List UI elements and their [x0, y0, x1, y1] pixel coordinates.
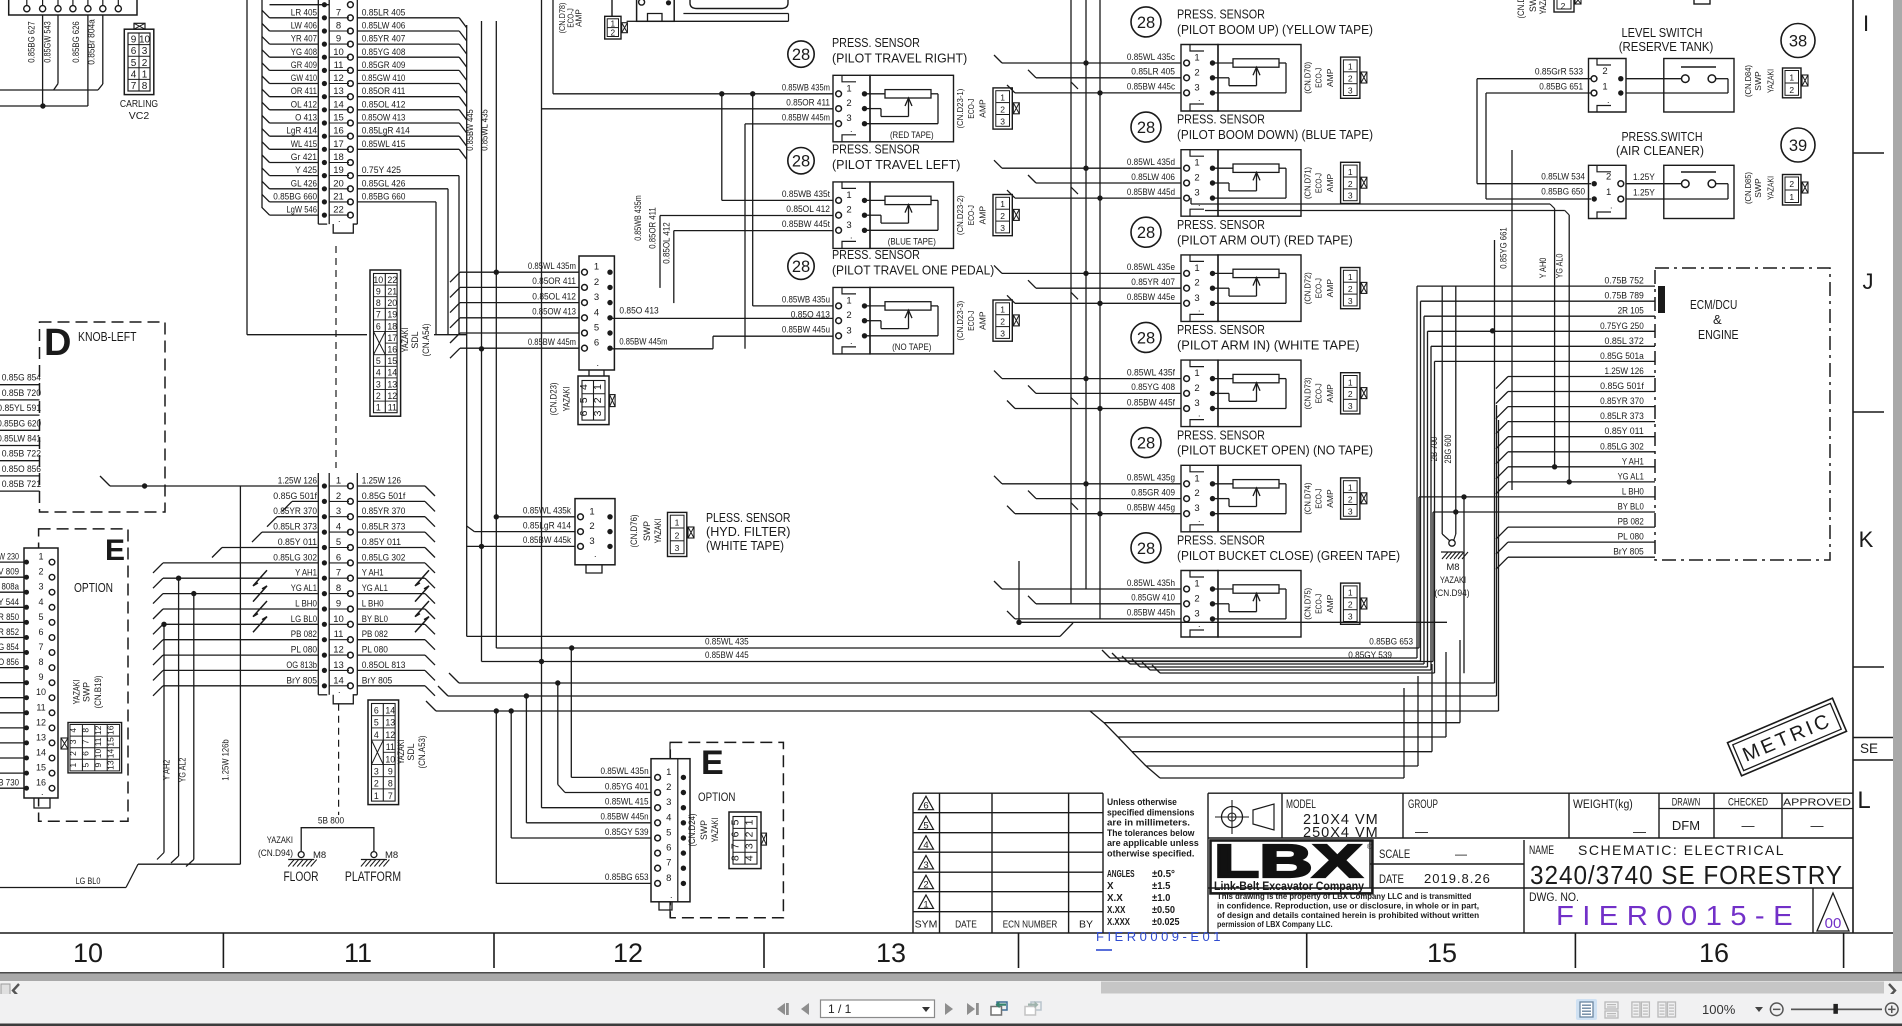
svg-text:BY BL0: BY BL0 — [1618, 502, 1644, 512]
svg-text:0.85GW 410: 0.85GW 410 — [362, 73, 406, 83]
svg-text:1.25W 126b: 1.25W 126b — [221, 739, 231, 780]
svg-text:2: 2 — [666, 782, 671, 793]
svg-text:3: 3 — [1194, 293, 1199, 304]
svg-text:SWP: SWP — [1753, 178, 1763, 198]
svg-text:2R 105: 2R 105 — [1618, 306, 1644, 316]
svg-text:&: & — [1713, 312, 1722, 327]
svg-text:2: 2 — [610, 28, 615, 38]
svg-text:SCHEMATIC: ELECTRICAL: SCHEMATIC: ELECTRICAL — [1578, 842, 1785, 858]
svg-text:28: 28 — [1137, 435, 1155, 453]
svg-text:LgR 414: LgR 414 — [286, 126, 317, 136]
svg-text:±0.025: ±0.025 — [1152, 917, 1180, 928]
svg-text:0.75Y 425: 0.75Y 425 — [362, 165, 401, 175]
svg-text:9: 9 — [336, 34, 341, 45]
svg-text:1: 1 — [336, 476, 341, 487]
svg-text:0.85BW 445k: 0.85BW 445k — [523, 535, 571, 545]
svg-text:2: 2 — [1000, 211, 1005, 221]
svg-text:2: 2 — [1606, 172, 1611, 183]
svg-text:0.85BG 653: 0.85BG 653 — [605, 872, 649, 882]
svg-text:1: 1 — [1348, 483, 1353, 493]
svg-text:1: 1 — [589, 506, 594, 517]
svg-text:(PILOT BOOM UP) (YELLOW TAPE): (PILOT BOOM UP) (YELLOW TAPE) — [1177, 22, 1373, 37]
svg-text:YAZAKI: YAZAKI — [400, 328, 410, 353]
svg-text:2: 2 — [1348, 600, 1353, 610]
svg-text:3: 3 — [1194, 398, 1199, 409]
svg-text:ECN NUMBER: ECN NUMBER — [1003, 919, 1058, 931]
svg-text:11: 11 — [36, 702, 45, 712]
svg-text:AMP: AMP — [1325, 594, 1335, 613]
svg-text:7: 7 — [38, 642, 43, 652]
svg-text:0.85LR 405: 0.85LR 405 — [1131, 67, 1175, 77]
svg-text:G 854: G 854 — [0, 642, 19, 652]
svg-text:0.85WL 435k: 0.85WL 435k — [523, 506, 571, 516]
svg-text:(RESERVE TANK): (RESERVE TANK) — [1619, 39, 1714, 54]
svg-text:3: 3 — [68, 739, 78, 744]
svg-text:(CN.D72): (CN.D72) — [1302, 272, 1312, 304]
svg-text:4: 4 — [374, 730, 379, 740]
svg-text:16: 16 — [333, 126, 344, 137]
svg-text:(CN.A53): (CN.A53) — [417, 735, 427, 768]
svg-text:1.25W 126: 1.25W 126 — [1605, 366, 1644, 376]
svg-text:PRESS. SENSOR: PRESS. SENSOR — [1177, 7, 1265, 22]
svg-text:(CN.D23): (CN.D23) — [548, 382, 558, 415]
svg-text:K: K — [1859, 527, 1874, 552]
svg-text:YAZAKI: YAZAKI — [1766, 176, 1776, 200]
svg-text:X.X: X.X — [1107, 893, 1123, 904]
svg-text:1: 1 — [1606, 187, 1611, 198]
svg-text:0.85OR 411: 0.85OR 411 — [648, 207, 658, 248]
svg-text:ECO-J: ECO-J — [1313, 68, 1323, 88]
svg-text:0.85GW 410: 0.85GW 410 — [1131, 593, 1175, 603]
svg-text:0.85BW 445d: 0.85BW 445d — [1127, 187, 1175, 197]
svg-text:LG BL0: LG BL0 — [76, 876, 101, 886]
svg-text:AMP: AMP — [978, 311, 988, 330]
svg-text:1 / 1: 1 / 1 — [828, 1002, 852, 1016]
svg-text:(PILOT TRAVEL RIGHT): (PILOT TRAVEL RIGHT) — [832, 50, 967, 65]
svg-text:8: 8 — [336, 21, 341, 32]
svg-text:5: 5 — [923, 821, 928, 832]
svg-text:10: 10 — [385, 754, 395, 764]
svg-text:CARLING: CARLING — [120, 98, 158, 110]
svg-text:0.85WB 435u: 0.85WB 435u — [782, 295, 830, 305]
svg-text:3240/3740 SE FORESTRY: 3240/3740 SE FORESTRY — [1530, 860, 1843, 890]
svg-text:6: 6 — [666, 843, 671, 854]
svg-text:.: . — [1198, 409, 1201, 419]
svg-text:(CN.A54): (CN.A54) — [421, 323, 431, 356]
svg-text:11: 11 — [388, 403, 397, 413]
svg-text:PRESS. SENSOR: PRESS. SENSOR — [832, 247, 920, 262]
svg-text:YAZAKI: YAZAKI — [710, 818, 720, 843]
svg-text:1: 1 — [1194, 263, 1199, 274]
svg-text:AMP: AMP — [978, 206, 988, 225]
svg-text:8: 8 — [376, 298, 381, 308]
svg-text:6: 6 — [594, 338, 599, 349]
svg-text:1: 1 — [1194, 368, 1199, 379]
svg-text:—: — — [1811, 818, 1824, 833]
svg-text:13: 13 — [387, 379, 397, 389]
svg-text:2: 2 — [589, 521, 594, 532]
svg-text:0.85YG 408: 0.85YG 408 — [362, 47, 406, 57]
svg-text:0.85WL 415: 0.85WL 415 — [362, 139, 406, 149]
svg-text:Link-Belt Excavator Company: Link-Belt Excavator Company — [1214, 879, 1364, 893]
svg-text:otherwise specified.: otherwise specified. — [1107, 849, 1194, 859]
svg-text:0.85OL 412: 0.85OL 412 — [532, 291, 576, 301]
svg-text:1: 1 — [1194, 579, 1199, 590]
svg-text:22: 22 — [333, 205, 344, 216]
svg-text:8: 8 — [336, 583, 341, 594]
svg-text:—: — — [1455, 847, 1467, 861]
svg-text:PRESS. SENSOR: PRESS. SENSOR — [832, 142, 920, 157]
svg-text:Y AH2: Y AH2 — [162, 760, 172, 781]
svg-text:22: 22 — [387, 275, 397, 285]
svg-text:11: 11 — [386, 742, 395, 752]
svg-text:0.85LR 373: 0.85LR 373 — [362, 522, 406, 532]
svg-text:0.85WB 435t: 0.85WB 435t — [782, 189, 830, 199]
svg-text:CHECKED: CHECKED — [1728, 797, 1768, 809]
svg-text:0.85WL 435c: 0.85WL 435c — [1127, 52, 1175, 62]
svg-text:5: 5 — [729, 819, 741, 825]
svg-text:0.85OR 411: 0.85OR 411 — [532, 276, 576, 286]
svg-text:4: 4 — [131, 69, 137, 80]
svg-text:0.85OW 413: 0.85OW 413 — [532, 307, 576, 317]
svg-text:YG AL2: YG AL2 — [178, 758, 188, 783]
svg-text:3: 3 — [1000, 223, 1005, 233]
svg-text:6: 6 — [923, 801, 928, 812]
svg-text:2: 2 — [1194, 488, 1199, 499]
svg-text:7: 7 — [388, 791, 393, 801]
svg-text:0.85Y 011: 0.85Y 011 — [278, 537, 317, 547]
svg-text:(RED TAPE): (RED TAPE) — [890, 130, 934, 140]
svg-text:1: 1 — [846, 83, 851, 94]
svg-text:1: 1 — [1348, 272, 1353, 282]
svg-text:(PILOT ARM IN) (WHITE TAPE): (PILOT ARM IN) (WHITE TAPE) — [1177, 338, 1360, 353]
svg-text:17: 17 — [387, 333, 397, 343]
svg-text:0.85G 501f: 0.85G 501f — [1600, 381, 1644, 391]
svg-text:PB 082: PB 082 — [362, 629, 388, 639]
svg-text:0.85G 854: 0.85G 854 — [2, 373, 41, 383]
svg-text:YG AL0: YG AL0 — [1555, 254, 1565, 279]
svg-text:0.85Y 011: 0.85Y 011 — [1605, 426, 1644, 436]
svg-text:DRAWN: DRAWN — [1672, 797, 1701, 809]
svg-text:LR 405: LR 405 — [291, 7, 317, 17]
svg-text:E: E — [105, 534, 125, 567]
svg-text:BY BL0: BY BL0 — [362, 614, 388, 624]
svg-text:0.85OW 413: 0.85OW 413 — [362, 113, 406, 123]
svg-text:YAZAKI: YAZAKI — [71, 680, 81, 705]
svg-text:100%: 100% — [1702, 1002, 1736, 1017]
svg-text:0.85LW 406: 0.85LW 406 — [1131, 172, 1175, 182]
svg-text:0.85OL 412: 0.85OL 412 — [661, 222, 671, 263]
svg-text:8: 8 — [38, 657, 43, 667]
svg-text:7: 7 — [336, 7, 341, 18]
svg-text:4: 4 — [666, 812, 671, 823]
svg-text:YR 407: YR 407 — [291, 34, 317, 44]
svg-text:2: 2 — [592, 397, 604, 403]
svg-text:5: 5 — [666, 828, 671, 839]
svg-text:28: 28 — [792, 153, 810, 171]
svg-text:1: 1 — [1000, 305, 1005, 315]
svg-text:ECO-J: ECO-J — [1313, 594, 1323, 614]
svg-text:3: 3 — [1194, 503, 1199, 514]
svg-text:8: 8 — [666, 873, 671, 884]
svg-text:2: 2 — [1789, 179, 1794, 189]
svg-text:2: 2 — [376, 391, 381, 401]
svg-text:0.85GR 409: 0.85GR 409 — [362, 60, 406, 70]
svg-text:1: 1 — [1348, 377, 1353, 387]
svg-text:O 856: O 856 — [0, 657, 19, 667]
svg-text:16: 16 — [1699, 938, 1729, 968]
svg-text:0.85BW 445c: 0.85BW 445c — [1127, 82, 1175, 92]
svg-text:15: 15 — [333, 113, 344, 124]
svg-text:are in millimeters.: are in millimeters. — [1107, 818, 1190, 828]
svg-text:14: 14 — [36, 748, 46, 758]
svg-text:11: 11 — [334, 629, 344, 640]
svg-text:(CN.D51): (CN.D51) — [1516, 0, 1526, 19]
svg-text:0.85LW 534: 0.85LW 534 — [1541, 172, 1585, 182]
svg-text:1: 1 — [142, 69, 148, 80]
svg-text:0.85BW 445n: 0.85BW 445n — [601, 812, 649, 822]
svg-text:1.25W 126: 1.25W 126 — [362, 476, 401, 486]
svg-text:0.85B 722: 0.85B 722 — [2, 449, 41, 459]
svg-text:0.85YR 370: 0.85YR 370 — [273, 506, 317, 516]
svg-text:(CN.D24): (CN.D24) — [687, 813, 697, 846]
svg-text:1: 1 — [1000, 199, 1005, 209]
svg-text:.: . — [850, 124, 853, 134]
svg-text:0.85B 721: 0.85B 721 — [2, 479, 41, 489]
svg-text:6: 6 — [578, 410, 590, 416]
svg-text:4: 4 — [923, 840, 928, 851]
svg-text:9: 9 — [376, 287, 381, 297]
svg-text:7: 7 — [376, 310, 381, 320]
svg-text:SYM: SYM — [915, 919, 938, 931]
svg-text:0.75B 752: 0.75B 752 — [1605, 276, 1644, 286]
svg-text:4: 4 — [376, 368, 381, 378]
svg-text:0.85YG 661: 0.85YG 661 — [1499, 227, 1509, 268]
svg-text:(WHITE TAPE): (WHITE TAPE) — [706, 539, 784, 553]
svg-text:0.85BG 650: 0.85BG 650 — [1541, 187, 1585, 197]
svg-text:0.85OL 813: 0.85OL 813 — [362, 660, 406, 670]
svg-text:2: 2 — [675, 530, 680, 540]
svg-text:BrY 805: BrY 805 — [286, 675, 317, 685]
svg-text:0.85LR 373: 0.85LR 373 — [1600, 411, 1644, 421]
svg-text:0.85OR 411: 0.85OR 411 — [362, 86, 406, 96]
svg-text:3: 3 — [846, 220, 851, 231]
svg-text:1: 1 — [1000, 93, 1005, 103]
svg-text:specified dimensions: specified dimensions — [1107, 807, 1194, 817]
svg-text:0.85B 720: 0.85B 720 — [2, 388, 41, 398]
svg-text:4: 4 — [744, 855, 756, 861]
svg-text:YAZAKI: YAZAKI — [1538, 0, 1548, 14]
svg-text:FLOOR: FLOOR — [283, 869, 318, 884]
svg-text:OG 813b: OG 813b — [286, 660, 317, 670]
svg-text:OPTION: OPTION — [74, 581, 113, 595]
svg-text:19: 19 — [333, 165, 344, 176]
svg-text:SDL: SDL — [410, 331, 420, 348]
svg-text:0.85WB 435m: 0.85WB 435m — [782, 83, 830, 93]
svg-text:AMP: AMP — [575, 9, 584, 27]
svg-text:(CN.D76): (CN.D76) — [629, 514, 639, 547]
svg-text:28: 28 — [1137, 14, 1155, 32]
svg-text:X: X — [1107, 881, 1114, 892]
svg-text:3: 3 — [1194, 608, 1199, 619]
svg-text:12: 12 — [36, 717, 46, 727]
svg-text:.: . — [850, 336, 853, 346]
svg-text:6: 6 — [374, 706, 379, 716]
svg-text:20: 20 — [387, 298, 397, 308]
svg-text:.: . — [1198, 514, 1201, 524]
svg-text:1: 1 — [1194, 158, 1199, 169]
svg-text:1: 1 — [923, 900, 928, 911]
svg-text:(HYD. FILTER): (HYD. FILTER) — [706, 525, 791, 539]
svg-text:2: 2 — [142, 58, 148, 69]
svg-text:(PILOT BOOM DOWN) (BLUE TAPE): (PILOT BOOM DOWN) (BLUE TAPE) — [1177, 127, 1373, 142]
svg-text:4: 4 — [68, 728, 78, 733]
svg-text:2: 2 — [1348, 284, 1353, 294]
svg-text:(CN.D70): (CN.D70) — [1302, 62, 1312, 94]
svg-text:8: 8 — [729, 855, 741, 861]
svg-text:.: . — [1198, 93, 1201, 103]
svg-text:This drawing is the property o: This drawing is the property of LBX Comp… — [1217, 892, 1471, 901]
svg-text:PRESS. SENSOR: PRESS. SENSOR — [1177, 533, 1265, 548]
svg-text:0.85Br 804a: 0.85Br 804a — [87, 19, 97, 65]
svg-text:0.85BW 445g: 0.85BW 445g — [1127, 503, 1175, 513]
svg-text:3: 3 — [666, 797, 671, 808]
svg-text:3: 3 — [923, 860, 928, 871]
svg-text:of design and details containe: of design and details contained herein i… — [1217, 911, 1479, 920]
svg-text:7: 7 — [131, 81, 137, 92]
svg-text:WL 415: WL 415 — [291, 139, 317, 149]
svg-text:.: . — [850, 230, 853, 240]
svg-text:PL 080: PL 080 — [1618, 532, 1644, 542]
svg-text:2: 2 — [923, 880, 928, 891]
svg-text:L BH0: L BH0 — [362, 599, 384, 609]
svg-text:PB 082: PB 082 — [1618, 517, 1644, 527]
svg-text:0.85WL 415: 0.85WL 415 — [605, 797, 649, 807]
svg-text:BrY 805: BrY 805 — [1613, 547, 1644, 557]
svg-text:2: 2 — [846, 98, 851, 109]
svg-text:4: 4 — [38, 597, 43, 607]
svg-text:1: 1 — [744, 819, 756, 825]
svg-text:L BH0: L BH0 — [295, 599, 317, 609]
svg-text:28: 28 — [1137, 540, 1155, 558]
svg-text:(CN.D71): (CN.D71) — [1302, 167, 1312, 199]
svg-text:15: 15 — [387, 356, 397, 366]
svg-text:DATE: DATE — [955, 919, 977, 931]
svg-text:SCALE: SCALE — [1379, 847, 1410, 861]
svg-text:0.85LW 841: 0.85LW 841 — [0, 434, 41, 444]
svg-text:5: 5 — [131, 58, 137, 69]
svg-text:0.85WL 435f: 0.85WL 435f — [1127, 367, 1175, 377]
svg-text:BrY 805: BrY 805 — [362, 675, 393, 685]
svg-text:2: 2 — [1602, 66, 1607, 77]
svg-text:4: 4 — [594, 307, 599, 318]
svg-text:0.85YR 407: 0.85YR 407 — [1131, 277, 1175, 287]
svg-text:5: 5 — [38, 612, 43, 622]
svg-text:0.85BG 627: 0.85BG 627 — [27, 21, 37, 62]
svg-text:1: 1 — [1789, 73, 1794, 83]
svg-text:(AIR CLEANER): (AIR CLEANER) — [1616, 143, 1704, 158]
svg-text:MODEL: MODEL — [1286, 799, 1316, 811]
svg-text:2: 2 — [1194, 383, 1199, 394]
svg-text:11: 11 — [344, 938, 372, 968]
svg-text:2: 2 — [594, 277, 599, 288]
svg-text:1: 1 — [594, 262, 599, 273]
svg-text:0.85BG 651: 0.85BG 651 — [1539, 82, 1583, 92]
svg-text:R 850: R 850 — [0, 612, 19, 622]
svg-text:12: 12 — [387, 391, 397, 401]
svg-text:0.85WL 435m: 0.85WL 435m — [528, 261, 576, 271]
svg-text:0.85G 501f: 0.85G 501f — [362, 491, 406, 501]
svg-text:3: 3 — [675, 543, 680, 553]
svg-text:0.85GR 409: 0.85GR 409 — [1131, 487, 1175, 497]
svg-text:0.85OR 411: 0.85OR 411 — [786, 97, 830, 107]
svg-text:DATE: DATE — [1379, 872, 1404, 886]
svg-text:0.85LG 302: 0.85LG 302 — [1600, 441, 1644, 451]
svg-text:2: 2 — [846, 205, 851, 216]
svg-text:3: 3 — [336, 506, 341, 517]
svg-text:1: 1 — [666, 767, 671, 778]
svg-text:10: 10 — [36, 687, 46, 697]
svg-text:13: 13 — [36, 732, 46, 742]
svg-text:LG BL0: LG BL0 — [291, 614, 317, 624]
svg-text:(PILOT ARM OUT) (RED TAPE): (PILOT ARM OUT) (RED TAPE) — [1177, 232, 1353, 247]
svg-text:YAZAKI: YAZAKI — [562, 387, 572, 412]
svg-text:3: 3 — [1348, 401, 1353, 411]
svg-text:SWP: SWP — [699, 820, 709, 840]
svg-text:permission of LBX Company LLC.: permission of LBX Company LLC. — [1217, 920, 1333, 929]
svg-text:3: 3 — [1348, 296, 1353, 306]
svg-text:(BLUE TAPE): (BLUE TAPE) — [888, 236, 936, 246]
svg-text:±0.5°: ±0.5° — [1152, 869, 1175, 880]
svg-text:5: 5 — [578, 397, 590, 403]
svg-text:0.85Y 011: 0.85Y 011 — [362, 537, 401, 547]
svg-text:NAME: NAME — [1529, 843, 1554, 857]
svg-text:3: 3 — [592, 410, 604, 416]
svg-text:0.85GW 543: 0.85GW 543 — [43, 21, 53, 62]
svg-text:ECO-J: ECO-J — [966, 205, 976, 225]
svg-text:0.85BW 445m: 0.85BW 445m — [782, 113, 830, 123]
svg-text:0.85BG 660: 0.85BG 660 — [273, 191, 317, 201]
svg-text:L: L — [1857, 787, 1870, 814]
svg-text:3: 3 — [1348, 191, 1353, 201]
svg-text:Y AH0: Y AH0 — [1538, 258, 1548, 279]
svg-text:3: 3 — [374, 767, 379, 777]
svg-text:(CN.D74): (CN.D74) — [1302, 482, 1312, 514]
svg-text:OPTION: OPTION — [698, 790, 735, 804]
svg-text:0.85YG 408: 0.85YG 408 — [1131, 382, 1175, 392]
svg-text:The tolerances below: The tolerances below — [1107, 828, 1195, 838]
svg-text:11: 11 — [334, 60, 344, 71]
svg-text:0.85WL 435d: 0.85WL 435d — [1127, 157, 1175, 167]
svg-text:16: 16 — [36, 778, 46, 788]
svg-text:1: 1 — [1194, 473, 1199, 484]
svg-text:0.85GrR 533: 0.85GrR 533 — [1535, 67, 1583, 77]
svg-text:.: . — [1198, 303, 1201, 313]
svg-text:3: 3 — [846, 113, 851, 124]
svg-text:18: 18 — [333, 152, 344, 163]
svg-text:28: 28 — [1137, 119, 1155, 137]
svg-text:FIER0015-E: FIER0015-E — [1556, 900, 1801, 931]
svg-text:2: 2 — [38, 567, 43, 577]
svg-text:6: 6 — [729, 831, 741, 837]
svg-text:3: 3 — [1000, 328, 1005, 338]
svg-text:±1.5: ±1.5 — [1152, 881, 1171, 892]
svg-text:0.85WL 435n: 0.85WL 435n — [601, 766, 649, 776]
svg-text:3: 3 — [589, 536, 594, 547]
svg-text:3: 3 — [744, 843, 756, 849]
svg-text:13: 13 — [333, 660, 344, 671]
svg-text:2: 2 — [336, 491, 341, 502]
